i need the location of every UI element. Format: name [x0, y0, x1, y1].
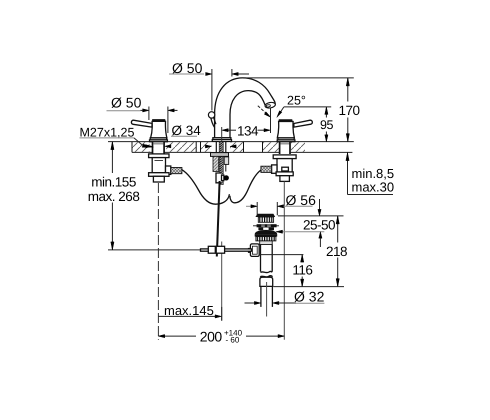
- spout base flange: [213, 138, 231, 140]
- deck segment edge lines: [132, 142, 263, 153]
- side port block: [224, 157, 229, 165]
- dimension arrows at left shank (O34): [146, 145, 152, 148]
- bracket knob: [224, 175, 229, 180]
- left hose nipple: [166, 166, 171, 174]
- spout locknut collar: [211, 153, 229, 157]
- right handle plinth: [278, 138, 294, 140]
- svg-text:min.155: min.155: [91, 175, 136, 190]
- svg-text:Ø 56: Ø 56: [286, 192, 317, 208]
- right hose nipple: [272, 165, 277, 173]
- spout deck hole arrows: [211, 142, 230, 152]
- dimension min8,5 max30: [347, 153, 349, 195]
- pull rod ring knob: [208, 112, 214, 118]
- black band: [255, 234, 278, 237]
- svg-text:200: 200: [200, 329, 223, 345]
- extension line drain top: [278, 215, 344, 217]
- dimension 170: [347, 78, 349, 102]
- svg-text:Ø 50: Ø 50: [172, 60, 203, 76]
- pop-up lever thin line: [108, 249, 201, 251]
- pivot tee: [250, 244, 259, 257]
- knurled band: [258, 217, 273, 222]
- label O56: [256, 202, 258, 215]
- pop-up lever rod: [201, 249, 252, 251]
- tailpipe centerline: [266, 282, 268, 317]
- spout shank in hole: [215, 142, 217, 155]
- extension line tailpipe bottom: [274, 286, 345, 288]
- dimension 116: [260, 254, 304, 256]
- left handle lever: [131, 120, 152, 127]
- left handle plinth: [150, 138, 167, 140]
- lever clamp: [208, 246, 215, 253]
- extension line spout top: [240, 77, 354, 79]
- spout mouth: [265, 102, 276, 109]
- dome flange: [255, 230, 278, 234]
- right bottom stub: [280, 176, 290, 182]
- deck top extension line: [108, 141, 354, 143]
- right handle knob cap: [278, 119, 292, 121]
- left bottom stub: [153, 176, 164, 182]
- dimension 200 +140/-60: [158, 335, 196, 337]
- left hose: [182, 170, 230, 205]
- right lower flange: [276, 172, 293, 176]
- right handle knob body: [277, 122, 294, 138]
- right hose: [230, 170, 261, 203]
- svg-text:218: 218: [326, 244, 347, 259]
- tailpipe: [260, 286, 262, 307]
- dimension 25-50: [319, 199, 321, 210]
- spout threaded rod: [219, 142, 223, 185]
- dimension 218: [337, 216, 339, 243]
- drain neck: [260, 241, 273, 245]
- pull rod (thick): [217, 181, 220, 257]
- left lower flange: [149, 173, 169, 177]
- svg-text:Ø 32: Ø 32: [294, 288, 325, 304]
- left handle knob cap: [152, 119, 166, 121]
- svg-text:25-50: 25-50: [303, 218, 335, 233]
- left valve body: [152, 158, 165, 173]
- right handle lever: [294, 120, 312, 127]
- pop-up drain head top cap: [255, 214, 275, 217]
- ring bar: [257, 224, 277, 227]
- right locknut: [273, 155, 296, 159]
- coupling nut: [260, 277, 273, 286]
- svg-text:- 60: - 60: [226, 335, 240, 344]
- deck hatched segments: [132, 142, 305, 152]
- left handle shank in deck hole: [153, 142, 165, 154]
- drain body tube: [260, 245, 262, 272]
- svg-text:Ø 50: Ø 50: [111, 95, 142, 111]
- svg-text:95: 95: [320, 118, 333, 132]
- mid blocks: [258, 227, 274, 230]
- svg-text:116: 116: [292, 262, 312, 277]
- ribbed collar: [256, 237, 276, 241]
- dimension 95: [325, 107, 327, 118]
- dimension min155 max268: [111, 142, 113, 173]
- left handle knob body: [151, 121, 167, 137]
- svg-text:max.30: max.30: [352, 179, 395, 194]
- right shank in deck hole: [279, 142, 290, 154]
- svg-text:134: 134: [237, 124, 259, 139]
- spout shank tube below: [213, 156, 219, 171]
- wavy break: [260, 271, 272, 276]
- deck bottom line: [132, 151, 352, 153]
- rod guide bracket: [216, 173, 222, 183]
- svg-text:25°: 25°: [287, 94, 306, 108]
- right supply line / extension line: [283, 182, 285, 340]
- svg-text:M27x1,25: M27x1,25: [80, 125, 135, 139]
- right valve body: [277, 159, 292, 173]
- svg-text:max.145: max.145: [164, 303, 214, 318]
- thin center line below spout: [221, 242, 223, 321]
- svg-text:max. 268: max. 268: [88, 189, 140, 204]
- spout axis line: [221, 127, 223, 141]
- left supply line / extension line: [157, 183, 159, 340]
- dimension 134: [222, 129, 228, 132]
- left locknut: [149, 154, 169, 158]
- spout body: [215, 78, 276, 141]
- label O32: [245, 302, 255, 304]
- svg-text:Ø 34: Ø 34: [172, 123, 202, 138]
- svg-text:170: 170: [339, 103, 360, 118]
